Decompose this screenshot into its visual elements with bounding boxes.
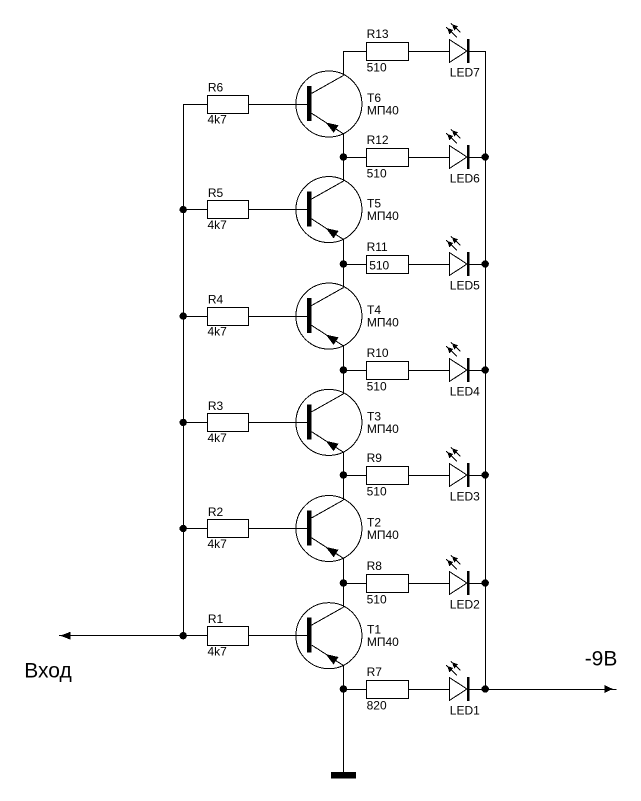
svg-text:Вход: Вход	[24, 660, 72, 683]
svg-text:R9: R9	[367, 451, 383, 465]
svg-text:820: 820	[367, 698, 387, 712]
svg-text:R2: R2	[208, 505, 224, 519]
svg-text:LED3: LED3	[450, 489, 480, 503]
svg-text:510: 510	[367, 60, 387, 74]
svg-text:МП40: МП40	[367, 635, 399, 649]
svg-text:4k7: 4k7	[208, 325, 228, 339]
svg-text:R8: R8	[367, 559, 383, 573]
svg-text:R1: R1	[208, 612, 224, 626]
svg-text:4k7: 4k7	[208, 537, 228, 551]
svg-text:МП40: МП40	[367, 104, 399, 118]
svg-text:LED2: LED2	[450, 597, 480, 611]
svg-text:МП40: МП40	[367, 316, 399, 330]
svg-text:510: 510	[367, 379, 387, 393]
svg-text:4k7: 4k7	[208, 113, 228, 127]
svg-text:R4: R4	[208, 293, 224, 307]
svg-text:R5: R5	[208, 186, 224, 200]
svg-text:LED7: LED7	[450, 65, 480, 79]
svg-text:R10: R10	[367, 346, 389, 360]
svg-text:LED1: LED1	[450, 703, 480, 717]
svg-text:LED4: LED4	[450, 384, 480, 398]
svg-text:LED6: LED6	[450, 171, 480, 185]
svg-text:МП40: МП40	[367, 422, 399, 436]
svg-text:МП40: МП40	[367, 209, 399, 223]
svg-text:МП40: МП40	[367, 528, 399, 542]
svg-text:R6: R6	[208, 81, 224, 95]
svg-text:510: 510	[369, 259, 389, 273]
svg-text:R13: R13	[367, 27, 389, 41]
svg-text:510: 510	[367, 166, 387, 180]
svg-text:LED5: LED5	[450, 278, 480, 292]
svg-text:4k7: 4k7	[208, 431, 228, 445]
svg-text:R3: R3	[208, 399, 224, 413]
svg-text:4k7: 4k7	[208, 644, 228, 658]
svg-text:510: 510	[367, 484, 387, 498]
svg-text:R7: R7	[367, 665, 383, 679]
svg-text:R12: R12	[367, 133, 389, 147]
svg-text:-9В: -9В	[585, 647, 618, 670]
svg-text:4k7: 4k7	[208, 218, 228, 232]
svg-text:R11: R11	[367, 240, 388, 254]
svg-text:510: 510	[367, 592, 387, 606]
